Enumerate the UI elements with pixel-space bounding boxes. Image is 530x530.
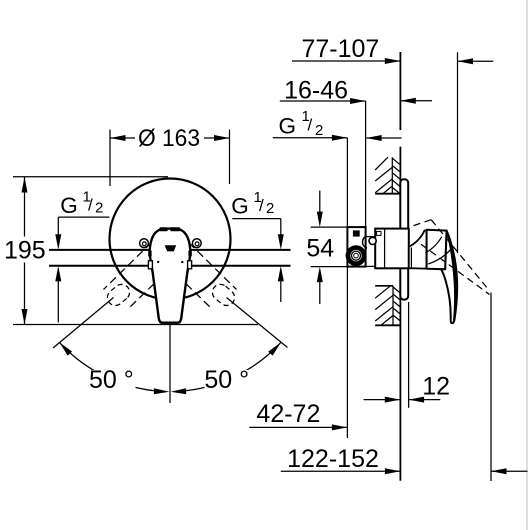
logo bar: [165, 245, 177, 251]
dim 54 upper leader: [319, 191, 321, 215]
G1/2 front-right arrow down: [278, 234, 284, 250]
dim 122-152 arrow left-pointing: [491, 468, 507, 474]
G1/2 front-left lower leader: [57, 277, 59, 323]
svg-text:77-107: 77-107: [301, 35, 379, 63]
wall hatch upper: long strokes: [375, 157, 392, 193]
dashed rotated-handle edge left B: [128, 275, 163, 309]
dashed rotated-handle edge left A: [104, 234, 161, 290]
connector top line: [366, 236, 376, 238]
connector bottom line: [366, 265, 376, 267]
svg-text:2: 2: [266, 200, 274, 217]
dim 42-72 arrow right-pointing: [332, 424, 348, 430]
svg-text:54: 54: [306, 235, 334, 263]
dim 77-107 right tail: [458, 60, 494, 62]
dim 16-46 arrow right-pointing: [350, 98, 366, 104]
wall hatch upper: band left line: [391, 157, 393, 194]
G1/2 front-left leader underline: [58, 216, 109, 218]
dim 54 arrow down: [317, 212, 323, 228]
dim 12 right tail: [409, 399, 441, 401]
dashed swung handle bottom edge: [421, 244, 490, 294]
dashed swung handle top edge: [431, 220, 489, 291]
wall hatch lower: top line: [375, 285, 393, 287]
dim Ø163 arrow right: [214, 135, 230, 141]
dim Ø163 line left segment: [110, 137, 135, 139]
dim 195 arrow up: [22, 177, 28, 193]
G1/2 top arrow left-pointing: [366, 135, 382, 141]
G1/2 top right tail: [366, 137, 401, 139]
dim Ø163 arrow left: [110, 135, 126, 141]
svg-text:2: 2: [315, 122, 323, 139]
valve sleeve through wall: [375, 229, 409, 269]
svg-text:G: G: [279, 113, 297, 138]
arc arrowhead right-center: [171, 388, 187, 394]
label 50deg left: [89, 366, 136, 394]
G1/2 front-left arrow down: [55, 234, 61, 250]
dim 195 line lower: [24, 263, 26, 325]
dim 77-107 arrow left-pointing: [458, 58, 474, 64]
dim 77-107 ext line: [457, 52, 459, 253]
label 50deg right: [204, 366, 251, 394]
dim 16-46 right tail: [400, 100, 432, 102]
svg-text:Ø 163: Ø 163: [138, 125, 200, 152]
dim 122-152 leader: [281, 470, 401, 472]
dashed rotated-handle edge right A: [180, 234, 237, 290]
dim 54 lower leader: [319, 279, 321, 304]
dashed swung handle hub edge: [414, 220, 432, 226]
svg-text:195: 195: [4, 237, 46, 265]
page edge faint line: [526, 0, 528, 530]
G1/2 top leader underline: [273, 137, 348, 139]
label G1/2 front-right: [231, 189, 274, 219]
handle centerline vertical: [169, 323, 171, 403]
dome top tab right: [170, 227, 180, 231]
handle hub (side): [427, 230, 447, 270]
50deg arc right: [174, 342, 281, 391]
side tab left: [148, 261, 152, 269]
dim 16-46 leader: [280, 100, 366, 102]
dim Ø163 line right segment: [204, 137, 230, 139]
arc arrowhead left-center: [154, 388, 170, 394]
svg-text:50 °: 50 °: [204, 366, 249, 394]
dashed handle-tip stadium right: [209, 281, 238, 309]
svg-text:42-72: 42-72: [256, 400, 320, 428]
dim 122-152 right tail: [491, 470, 528, 472]
svg-text:122-152: 122-152: [287, 445, 379, 473]
svg-text:G: G: [231, 194, 249, 219]
svg-text:2: 2: [95, 199, 103, 216]
handle dot right: [181, 261, 183, 263]
dim 42-72 leader: [249, 426, 347, 428]
handle body (lever, front): [150, 229, 191, 323]
sleeve divider line: [384, 229, 386, 268]
supply pipe top line: [49, 249, 291, 251]
G1/2 front-right upper leader: [280, 219, 282, 240]
svg-text:12: 12: [422, 373, 450, 401]
dim 195 line upper: [24, 177, 26, 237]
dim Ø163 ext line left: [109, 130, 111, 187]
dim 54 ext bottom: [311, 266, 348, 268]
dim 195 ext line bottom: [13, 324, 258, 326]
G1/2 front-right leader underline: [232, 218, 280, 220]
lever blade (side): [441, 231, 457, 324]
clamp bar right: [188, 251, 191, 257]
dim 12 left tail: [364, 399, 401, 401]
dim 12 arrow right-pointing: [385, 397, 401, 403]
valve body set screw: [353, 230, 360, 236]
lever blade dark face: [446, 231, 457, 322]
sleeve notch: [377, 231, 381, 235]
dashed handle-tip stadium left: [104, 281, 133, 309]
G1/2 front-right lower leader: [280, 277, 282, 302]
side tab right: [188, 261, 192, 269]
escutcheon plate (side): [400, 179, 408, 299]
arc arrowhead left-outer: [57, 340, 72, 355]
dim 12 ext line: [408, 302, 410, 408]
dome profile arc 2: [425, 237, 441, 253]
stem small circle: [369, 237, 376, 244]
50deg arc left: [59, 342, 166, 391]
dim 54 arrow up: [317, 267, 323, 283]
50deg leg right: [227, 298, 288, 348]
dim 54 ext top: [311, 226, 348, 228]
supply pipe bottom line: [49, 265, 291, 267]
label G1/2 top: [279, 108, 324, 139]
wall hatch lower: feather strokes: [393, 287, 400, 321]
supply centerline: [346, 138, 348, 438]
G1/2 front-left upper leader: [57, 217, 59, 240]
wall bottom line: [375, 324, 400, 326]
svg-text:/: /: [88, 196, 93, 215]
escutcheon circle: [110, 179, 231, 300]
rosette cone: [409, 231, 427, 269]
rough-in valve body box: [347, 227, 365, 267]
dim 122-152 arrow right-pointing: [385, 468, 401, 474]
dim Ø163 ext line right: [229, 130, 231, 185]
handle dot left: [157, 261, 159, 263]
wall hatch lower: band left line: [392, 286, 394, 325]
dim 16-46 ext line: [365, 101, 367, 227]
dome top tab left: [160, 227, 168, 231]
arc arrowhead right-outer: [268, 340, 283, 355]
supply union nut: [346, 245, 367, 266]
dim 77-107 leader: [292, 60, 400, 62]
screw right: [192, 239, 201, 248]
svg-text:/: /: [259, 196, 264, 215]
svg-text:16-46: 16-46: [284, 77, 348, 105]
dome profile arc 1: [428, 249, 451, 264]
svg-text:/: /: [308, 116, 313, 135]
clamp bar left: [148, 251, 151, 257]
wall face line: [399, 52, 401, 130]
dim 12 arrow left-pointing: [409, 397, 425, 403]
retaining clip hook: [363, 236, 368, 248]
dim 77-107 arrow right-pointing: [385, 58, 401, 64]
label G1/2 front-left: [60, 188, 103, 218]
G1/2 front-right arrow up: [278, 266, 284, 282]
rosette back edge: [410, 248, 412, 268]
svg-text:G: G: [60, 193, 78, 218]
swung tip extension line: [490, 293, 492, 482]
wall hatch lower: long strokes: [375, 286, 393, 325]
screw left: [140, 239, 149, 248]
dashed rotated-handle edge right B: [177, 275, 212, 309]
svg-text:50 °: 50 °: [89, 366, 134, 394]
G1/2 top arrow right-pointing: [332, 135, 348, 141]
dim 195 arrow down: [22, 309, 28, 325]
G1/2 front-left arrow up: [55, 266, 61, 282]
wall hatch upper: bottom line: [375, 193, 400, 195]
dim 195 ext line top: [13, 176, 168, 178]
wall hatch upper: feather strokes: [392, 158, 400, 194]
dim 16-46 arrow left-pointing: [400, 98, 416, 104]
50deg leg left: [53, 298, 114, 349]
